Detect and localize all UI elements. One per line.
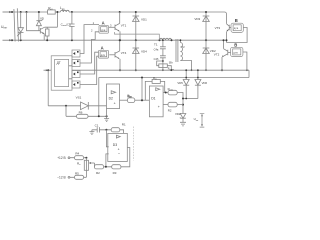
node primary left xyxy=(159,39,161,41)
capacitor C4a wire xyxy=(162,40,164,70)
wire secondary bottom xyxy=(180,61,191,71)
wire node down to R6 xyxy=(65,106,67,117)
svg-text:R2: R2 xyxy=(168,108,172,112)
op-amp D2 box xyxy=(107,84,120,109)
diode VD2 symbol xyxy=(203,48,210,54)
svg-text:R2: R2 xyxy=(96,171,100,175)
diode VD6 wire xyxy=(197,70,199,98)
node VS1 line xyxy=(65,105,67,107)
wire pin2 A1 xyxy=(80,32,99,63)
node Cout bottom xyxy=(71,39,73,41)
wire DT to formers stubs xyxy=(69,66,72,79)
diode VD2 wire xyxy=(205,40,207,70)
wire wiper to R2 xyxy=(94,163,96,167)
svg-text:VD1: VD1 xyxy=(141,17,147,21)
svg-text:−12 В: −12 В xyxy=(57,176,65,180)
wire VD5 VD6 bottom xyxy=(183,98,198,100)
svg-text:2: 2 xyxy=(91,29,93,33)
transformer T1 secondary xyxy=(180,43,182,61)
driver block A2 xyxy=(99,50,109,58)
ground zener xyxy=(180,122,186,126)
diode VD4 wire xyxy=(135,40,137,70)
block DT inner xyxy=(55,59,69,86)
svg-text:R3: R3 xyxy=(113,171,117,175)
diode VD4 symbol xyxy=(133,48,140,54)
wire VT4 base xyxy=(109,54,115,56)
mark F2 xyxy=(77,61,79,63)
node Rsv rail xyxy=(170,69,172,71)
node secondary bottom xyxy=(191,69,193,71)
wire top rail xyxy=(12,12,227,24)
wire pin1 A1 xyxy=(80,25,99,54)
svg-text:Rсвязь: Rсвязь xyxy=(168,67,174,70)
node R4 right xyxy=(85,157,87,159)
node VD3 top xyxy=(205,11,207,13)
svg-text:VD: VD xyxy=(40,17,44,21)
node D1 out xyxy=(165,92,167,94)
svg-text:VD4: VD4 xyxy=(141,49,147,53)
node VD6 bus xyxy=(197,77,199,79)
node top x29 xyxy=(26,11,28,13)
node VD5 top xyxy=(185,69,187,71)
node B2 return rail xyxy=(246,69,248,71)
diode VD6 symbol xyxy=(195,80,201,86)
phantom module edge xyxy=(132,127,134,161)
node VD1 bottom xyxy=(135,39,137,41)
wire secondary top xyxy=(179,40,181,42)
wire D2 bottom pin xyxy=(106,109,108,117)
wire D3 out feedback xyxy=(121,148,130,167)
wire Re resistor xyxy=(46,27,48,40)
wire sense bus drop left xyxy=(98,78,100,117)
capacitor Cout xyxy=(71,12,73,40)
wire emitter down xyxy=(43,34,45,41)
mark F1 xyxy=(77,51,79,53)
svg-text:VD2: VD2 xyxy=(175,112,181,116)
svg-text:Rвх: Rвх xyxy=(128,94,132,99)
wire DT input xyxy=(44,69,52,71)
svg-text:В: В xyxy=(235,18,238,23)
node C4 bottom xyxy=(162,69,164,71)
transformer T1 core xyxy=(176,39,178,62)
node bottom x22.5 xyxy=(20,39,22,41)
wire VT2 base xyxy=(228,52,231,54)
dimension arrow Uop xyxy=(200,113,205,127)
diode VD5 wire xyxy=(185,70,187,98)
zener VD2b symbol xyxy=(180,114,186,119)
svg-text:Rп: Rп xyxy=(77,161,81,166)
capacitor C4b plates xyxy=(160,56,166,58)
node R2 R3 xyxy=(105,166,107,168)
node VT2 emitter rail xyxy=(221,69,223,71)
block DT outer xyxy=(51,56,72,90)
svg-text:Т2: Т2 xyxy=(182,46,185,49)
resistor Rizm xyxy=(168,90,177,95)
svg-text:Uпит: Uпит xyxy=(1,25,8,30)
wire zener to ground xyxy=(182,118,184,122)
block former F2 xyxy=(72,60,80,67)
wire right end join xyxy=(248,70,250,77)
resistor R6 xyxy=(77,114,89,118)
resistor Re vertical xyxy=(45,29,49,36)
wire B2 return loop xyxy=(243,52,247,70)
node VT4 collector xyxy=(119,39,121,41)
op-amp D1 triangle xyxy=(156,88,160,91)
svg-text:VS1: VS1 xyxy=(76,96,82,100)
block former F4 xyxy=(72,81,80,88)
transformer T1 primary xyxy=(160,38,172,40)
svg-text:+12 В: +12 В xyxy=(57,156,65,160)
svg-text:R4: R4 xyxy=(75,152,79,156)
svg-text:D3: D3 xyxy=(113,143,117,147)
thyristor VS column wire xyxy=(20,12,22,40)
wire DT node down xyxy=(47,70,49,106)
wire VT1 base xyxy=(109,26,115,28)
block former F3 xyxy=(72,71,80,78)
svg-text:ДУВ: ДУВ xyxy=(234,28,239,30)
diode VD1 symbol xyxy=(133,16,140,22)
node C4 top xyxy=(162,39,164,41)
wire D3 minus input xyxy=(106,154,109,167)
driver block B2 xyxy=(231,47,243,56)
wire R2 R3 line xyxy=(94,166,111,168)
node VD6 top xyxy=(197,69,199,71)
wire input arrow bottom xyxy=(3,39,10,41)
wire input arrow top xyxy=(3,11,10,13)
svg-text:А: А xyxy=(101,45,104,50)
ground under D2 xyxy=(104,116,109,121)
wire Rvx to D1 xyxy=(135,99,150,101)
svg-text:3Вт: 3Вт xyxy=(169,61,174,64)
node R6 right xyxy=(106,115,108,117)
resistor Rvx xyxy=(127,98,134,103)
wire bottom rail xyxy=(12,39,227,41)
node emitter resistor bottom xyxy=(46,39,48,41)
wire VS1 line xyxy=(48,105,106,107)
glyph F2 xyxy=(73,62,75,65)
wire pin1 A2 xyxy=(80,52,99,74)
capacitor C1 xyxy=(92,127,111,132)
svg-text:−: − xyxy=(118,152,121,156)
op-amp D3 triangle xyxy=(116,135,120,138)
ground C1 left xyxy=(89,130,94,135)
diode VD1 wire xyxy=(135,12,137,40)
svg-text:VT3: VT3 xyxy=(215,26,221,30)
resistor R2 xyxy=(94,165,103,169)
node R6 bus xyxy=(98,115,100,117)
node VT3 emitter rail xyxy=(226,39,228,41)
svg-text:VT2: VT2 xyxy=(214,53,220,57)
node VT1 emitter rail xyxy=(119,39,121,41)
node top x22.5 xyxy=(20,11,22,13)
wire minus12 xyxy=(70,176,87,178)
diode VD3 symbol xyxy=(203,16,210,22)
potentiometer Rp xyxy=(84,160,88,170)
terminal minus12 xyxy=(68,176,70,178)
resistor R1 xyxy=(111,128,120,132)
wire Rizm right xyxy=(177,93,183,114)
wire B1 return loop xyxy=(227,28,248,43)
node Rvx D1 xyxy=(141,99,143,101)
capacitor C4a plates xyxy=(160,47,166,49)
svg-text:Cвых(С1): Cвых(С1) xyxy=(61,23,72,28)
node VT1 collector rail xyxy=(119,11,121,13)
node x57.4 top xyxy=(56,11,58,13)
transistor VT1 xyxy=(115,12,120,31)
node zener column r2 xyxy=(182,104,184,106)
mark F4 xyxy=(77,82,79,84)
svg-text:В: В xyxy=(234,43,237,48)
wire sense bus xyxy=(99,77,249,79)
node VD4 bottom xyxy=(135,69,137,71)
diode VD5 symbol xyxy=(183,80,189,86)
terminal plus12 xyxy=(68,157,70,159)
svg-text:VT4: VT4 xyxy=(121,51,127,55)
wire R1 right into D3 xyxy=(120,130,124,134)
wire D1 out xyxy=(163,92,168,94)
svg-text:VD3: VD3 xyxy=(194,17,200,21)
svg-text:ДУВ: ДУВ xyxy=(101,55,106,57)
wire pin2 A2 xyxy=(80,56,99,84)
resistor Rsv xyxy=(159,64,168,68)
zener VD column wire xyxy=(38,12,40,31)
svg-text:+: + xyxy=(114,102,116,106)
node VD1 top xyxy=(135,11,137,13)
wire D1 plus input xyxy=(163,104,168,106)
svg-text:Т1: Т1 xyxy=(154,42,158,46)
svg-text:VD5: VD5 xyxy=(177,81,183,85)
svg-text:D2: D2 xyxy=(109,96,113,100)
glyph F4 xyxy=(73,83,75,86)
node VT2 collector xyxy=(223,39,225,41)
node VD5 bottom xyxy=(185,98,187,100)
wire bus tap down xyxy=(141,78,143,101)
op-amp D3 box xyxy=(108,133,128,161)
glyph F1 xyxy=(73,52,75,55)
wire C1 node to D3 plus xyxy=(106,130,108,147)
svg-text:Rизм: Rизм xyxy=(168,87,174,92)
wire mid jumper y34 xyxy=(115,32,160,40)
node VT4 emitter xyxy=(119,69,121,71)
wire base start transistor xyxy=(27,12,41,31)
node VD2 bottom xyxy=(205,69,207,71)
resistor R2 ref xyxy=(168,102,177,107)
diode VS1 symbol xyxy=(81,102,89,110)
mark F3 xyxy=(77,72,79,74)
resistor R4 xyxy=(75,156,84,160)
svg-text:VD6: VD6 xyxy=(202,81,208,85)
transistor VT2 xyxy=(222,40,228,57)
resistor Ros xyxy=(152,79,160,83)
zener VD symbol xyxy=(36,21,41,26)
node secondary top xyxy=(180,39,182,41)
node bus tap xyxy=(141,77,143,79)
resistor R5 xyxy=(75,175,84,179)
node C1 xyxy=(105,129,107,131)
svg-text:Rш: Rш xyxy=(48,6,52,11)
diode VD3 wire xyxy=(205,12,207,40)
resistor R3 xyxy=(112,165,121,169)
svg-text:D1: D1 xyxy=(151,96,155,100)
svg-text:С1: С1 xyxy=(95,124,99,128)
wire R2 to zener xyxy=(177,104,183,106)
node VD3 bottom xyxy=(205,39,207,41)
connector X1 lines xyxy=(14,8,19,41)
node zener column vd56 xyxy=(182,98,184,100)
svg-text:VT1: VT1 xyxy=(121,23,127,27)
transistor VT3 xyxy=(227,24,230,31)
inductor Ldr xyxy=(60,10,69,12)
svg-text:R6: R6 xyxy=(79,111,83,115)
svg-text:R1: R1 xyxy=(122,123,126,127)
wire collector to Rsh node xyxy=(45,12,58,27)
node top x38.9 xyxy=(38,11,40,13)
wire plus12 xyxy=(70,157,87,159)
node primary right xyxy=(171,39,173,41)
driver block B1 xyxy=(231,23,243,32)
svg-text:R5: R5 xyxy=(75,171,79,175)
transistor Q start xyxy=(40,27,44,33)
node input top xyxy=(11,11,13,13)
svg-text:Rос: Rос xyxy=(153,76,157,81)
block former F1 xyxy=(72,50,80,57)
svg-text:С4а: С4а xyxy=(154,47,159,51)
svg-text:+: + xyxy=(158,105,160,109)
wire D2 out xyxy=(120,99,128,101)
wire R6 line xyxy=(66,115,107,117)
wire VT3 base xyxy=(229,27,231,29)
svg-text:С4б: С4б xyxy=(154,57,159,61)
svg-text:А: А xyxy=(102,21,105,26)
op-amp D1 box xyxy=(149,86,163,117)
svg-text:ДТ: ДТ xyxy=(57,61,61,65)
wire bottom power rail xyxy=(72,69,249,71)
transistor VT4 xyxy=(115,40,120,59)
svg-text:+: + xyxy=(118,147,120,151)
node secondary Rsv xyxy=(162,60,164,62)
thyristor VS symbol xyxy=(18,28,24,33)
wire Ros loop xyxy=(145,81,164,100)
svg-text:Uоп: Uоп xyxy=(194,117,199,122)
op-amp D2 triangle xyxy=(111,91,115,94)
wiper Rp xyxy=(91,162,95,164)
glyph F3 xyxy=(73,73,75,76)
driver block A1 xyxy=(99,25,108,33)
node Cout top xyxy=(71,11,73,13)
node VD5 bus xyxy=(185,77,187,79)
wire pot column xyxy=(85,158,87,178)
wire T1 secondary to Rsv xyxy=(157,61,172,70)
svg-text:ДУВ: ДУВ xyxy=(101,30,106,32)
node DT input xyxy=(47,69,49,71)
svg-text:ДУВ: ДУВ xyxy=(233,52,238,54)
resistor Rsh xyxy=(48,10,56,14)
node input bottom xyxy=(11,39,13,41)
